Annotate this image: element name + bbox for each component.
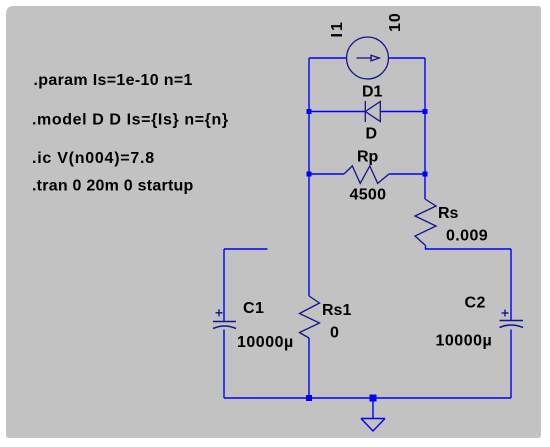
wire left rail vertical: [308, 58, 310, 296]
ground: [361, 419, 385, 432]
capacitor C2: [500, 321, 524, 328]
node junction Rp row left: [307, 172, 312, 177]
svg-text:10000µ: 10000µ: [237, 334, 294, 351]
svg-text:C2: C2: [465, 295, 486, 312]
node junction ground tap: [370, 395, 377, 402]
wire Rp row left lead: [309, 173, 344, 175]
svg-text:I1: I1: [329, 20, 346, 37]
resistor Rp: [344, 166, 389, 184]
wire C2 to bottom rail: [510, 330, 512, 399]
wire diode row right: [381, 111, 425, 113]
wire top-left horizontal: [309, 57, 347, 59]
wire C1 top stub horizontal: [224, 248, 268, 250]
resistor Rs: [415, 199, 436, 246]
wire right rail vertical: [424, 58, 426, 199]
svg-text:Rp: Rp: [357, 149, 379, 166]
svg-text:10000µ: 10000µ: [436, 333, 493, 350]
svg-text:0: 0: [330, 325, 339, 342]
svg-text:.ic V(n004)=7.8: .ic V(n004)=7.8: [32, 150, 155, 167]
wire Rp row right lead: [389, 173, 425, 175]
svg-text:Rs: Rs: [438, 205, 459, 222]
svg-text:Rs1: Rs1: [322, 302, 351, 319]
svg-text:D1: D1: [362, 84, 383, 101]
svg-text:.model D D Is={Is} n={n}: .model D D Is={Is} n={n}: [32, 112, 229, 129]
wire diode row left: [309, 111, 365, 113]
wire right branch vertical to C2: [510, 249, 512, 321]
current source I1: [347, 37, 389, 79]
svg-text:4500: 4500: [350, 187, 387, 204]
diode D1: [365, 101, 380, 122]
svg-text:10: 10: [387, 12, 404, 32]
wire Rs1 bottom lead: [308, 338, 310, 398]
wire Rs bottom horizontal: [426, 246, 512, 250]
svg-text:C1: C1: [243, 300, 264, 317]
resistor Rs1: [300, 296, 320, 338]
svg-text:0.009: 0.009: [446, 228, 488, 245]
wire top-right horizontal: [388, 57, 425, 59]
wire ground stem: [372, 398, 374, 419]
node junction diode row right: [423, 109, 428, 114]
node junction diode row left: [307, 109, 312, 114]
wire bottom rail: [224, 397, 511, 399]
node junction Rp row right: [423, 172, 428, 177]
capacitor C1: [213, 322, 236, 329]
C1 plus sign: [216, 309, 223, 316]
svg-text:.tran 0 20m 0 startup: .tran 0 20m 0 startup: [32, 178, 194, 195]
node junction Rs1 bottom: [306, 395, 312, 401]
svg-text:D: D: [366, 126, 378, 143]
svg-text:.param Is=1e-10 n=1: .param Is=1e-10 n=1: [34, 72, 193, 89]
wire C1 to bottom rail: [223, 330, 225, 399]
C2 plus sign: [502, 310, 509, 317]
wire C1 top stub vertical: [223, 249, 225, 322]
